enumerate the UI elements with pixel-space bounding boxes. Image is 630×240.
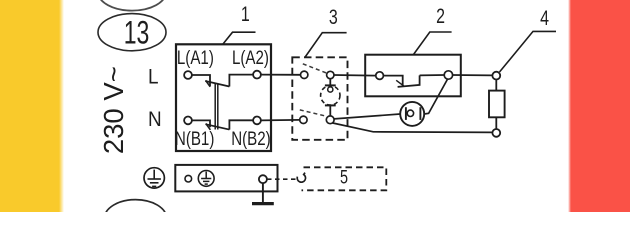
wire box3 to box2 bbox=[334, 74, 376, 77]
contact tick top bbox=[206, 80, 211, 86]
wire N(B2) to box3 bbox=[261, 119, 300, 122]
yellow sidebar bbox=[0, 0, 59, 212]
contact pivot bottom bbox=[326, 116, 334, 124]
glow lamp electrode bottom bbox=[325, 104, 336, 106]
svg-text:N(B2): N(B2) bbox=[231, 127, 270, 149]
terminal right of item 2 bbox=[444, 71, 452, 79]
svg-text:N: N bbox=[148, 108, 162, 131]
svg-text:4: 4 bbox=[540, 6, 549, 30]
terminal top of heater bbox=[492, 72, 500, 80]
terminal L(A2) bbox=[253, 71, 261, 79]
svg-text:L: L bbox=[148, 65, 159, 88]
glow lamp envelope (dashed circle) bbox=[321, 86, 340, 105]
switch blade top bbox=[205, 81, 229, 87]
step ellipse 13 bbox=[98, 14, 166, 51]
plug hook bbox=[297, 173, 305, 183]
wire box3 to heater bottom bbox=[333, 123, 493, 132]
svg-text:L(A2): L(A2) bbox=[232, 46, 269, 68]
svg-text:L(A1): L(A1) bbox=[177, 46, 214, 68]
svg-text:230 V~: 230 V~ bbox=[98, 66, 129, 154]
terminal N(B1) bbox=[184, 117, 192, 125]
cutout tick bbox=[396, 80, 404, 86]
dashed link to plug bbox=[267, 178, 297, 180]
earth terminal strip bbox=[175, 165, 277, 192]
terminal L(A1) bbox=[184, 71, 192, 79]
thermal cutout box (item 2) bbox=[365, 55, 461, 97]
contact pivot top bbox=[327, 71, 334, 78]
terminal bottom of heater bbox=[492, 129, 500, 137]
strip earth symbol bbox=[198, 171, 214, 187]
heater lead top bbox=[495, 80, 497, 91]
step ellipse 14 (top arc, cut at bottom edge) bbox=[105, 200, 167, 237]
heater lead bottom bbox=[495, 117, 497, 129]
lamp electrode left bbox=[405, 107, 407, 120]
step ellipse 12 (bottom arc, faint, cut at top edge) bbox=[98, 0, 166, 11]
switch blade bottom bbox=[206, 124, 230, 129]
strip terminal bbox=[259, 175, 267, 183]
earth bar bbox=[252, 202, 274, 205]
wire L(A1) to contact bbox=[192, 75, 210, 86]
earth extension box (item 5, dashed) bbox=[302, 167, 387, 190]
svg-text:5: 5 bbox=[340, 167, 348, 188]
glow lamp lead top bbox=[329, 79, 331, 86]
contact fixed top bbox=[301, 71, 308, 78]
svg-text:3: 3 bbox=[329, 5, 338, 29]
cutout blade bbox=[398, 75, 420, 87]
red sidebar bbox=[571, 0, 630, 212]
wire item2 to terminal 4 bbox=[453, 74, 493, 76]
box U1 (terminal block / relay, item 1) bbox=[176, 44, 271, 151]
blade bottom (dashed, open) bbox=[300, 110, 326, 116]
earth lead bbox=[262, 183, 264, 202]
wire to cutout contact bbox=[383, 76, 402, 87]
svg-text:13: 13 bbox=[124, 15, 150, 51]
wire riser to L(A2) bbox=[229, 75, 253, 87]
heater element R (item 4) bbox=[489, 91, 505, 118]
protective earth symbol (left of strip) bbox=[144, 168, 164, 188]
contact tick bottom bbox=[206, 124, 211, 130]
wire lamp to item2 terminal bbox=[424, 79, 447, 114]
terminal left of item 2 bbox=[376, 72, 384, 80]
thermostat box (item 3, dashed) bbox=[292, 57, 347, 140]
glow lamp dot bbox=[328, 87, 333, 92]
glow lamp lead bottom bbox=[329, 105, 331, 116]
svg-text:N(B1): N(B1) bbox=[175, 127, 214, 149]
mechanical linkage (double line) bbox=[215, 84, 218, 130]
terminal N(B2) bbox=[253, 117, 261, 125]
indicator lamp bbox=[400, 102, 424, 126]
wire N(B1) to contact bbox=[192, 120, 210, 127]
contact fixed bottom bbox=[300, 116, 307, 123]
wire riser to N(B2) bbox=[229, 120, 253, 129]
glow lamp electrode top bbox=[325, 84, 336, 86]
lamp electrode right bbox=[419, 107, 421, 120]
blade top (dashed, open) bbox=[303, 64, 327, 74]
svg-text:1: 1 bbox=[241, 2, 250, 26]
lamp dot bbox=[407, 110, 413, 116]
wire L(A2) to box3 bbox=[261, 74, 300, 76]
strip hole bbox=[185, 175, 192, 182]
wire box3 to lamp bbox=[334, 114, 400, 119]
wire to right terminal bbox=[420, 74, 445, 76]
svg-text:2: 2 bbox=[436, 4, 445, 28]
